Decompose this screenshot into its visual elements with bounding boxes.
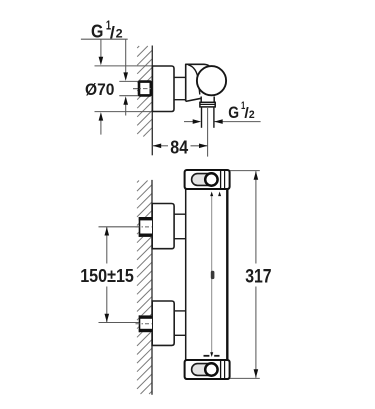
svg-text:317: 317 (245, 266, 271, 287)
svg-text:G: G (91, 21, 103, 42)
svg-text:Ø70: Ø70 (85, 80, 114, 99)
svg-text:/: / (110, 24, 115, 42)
svg-text:G: G (228, 103, 239, 122)
svg-text:2: 2 (116, 27, 123, 41)
svg-text:150±15: 150±15 (80, 265, 134, 286)
svg-text:84: 84 (170, 136, 188, 157)
svg-text:2: 2 (249, 109, 255, 121)
